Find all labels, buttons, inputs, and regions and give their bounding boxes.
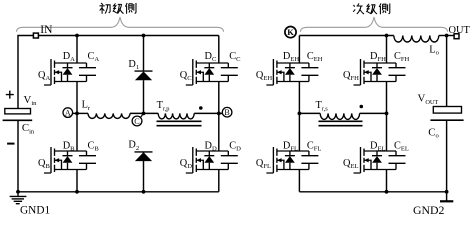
svg-text:C: C xyxy=(134,117,140,126)
svg-text:B: B xyxy=(224,108,229,117)
svg-text:GND1: GND1 xyxy=(20,204,50,216)
svg-text:GND2: GND2 xyxy=(413,203,445,217)
svg-text:IN: IN xyxy=(40,24,53,36)
svg-text:K: K xyxy=(287,27,294,37)
svg-text:A: A xyxy=(65,108,71,117)
svg-text:OUT: OUT xyxy=(449,25,471,36)
